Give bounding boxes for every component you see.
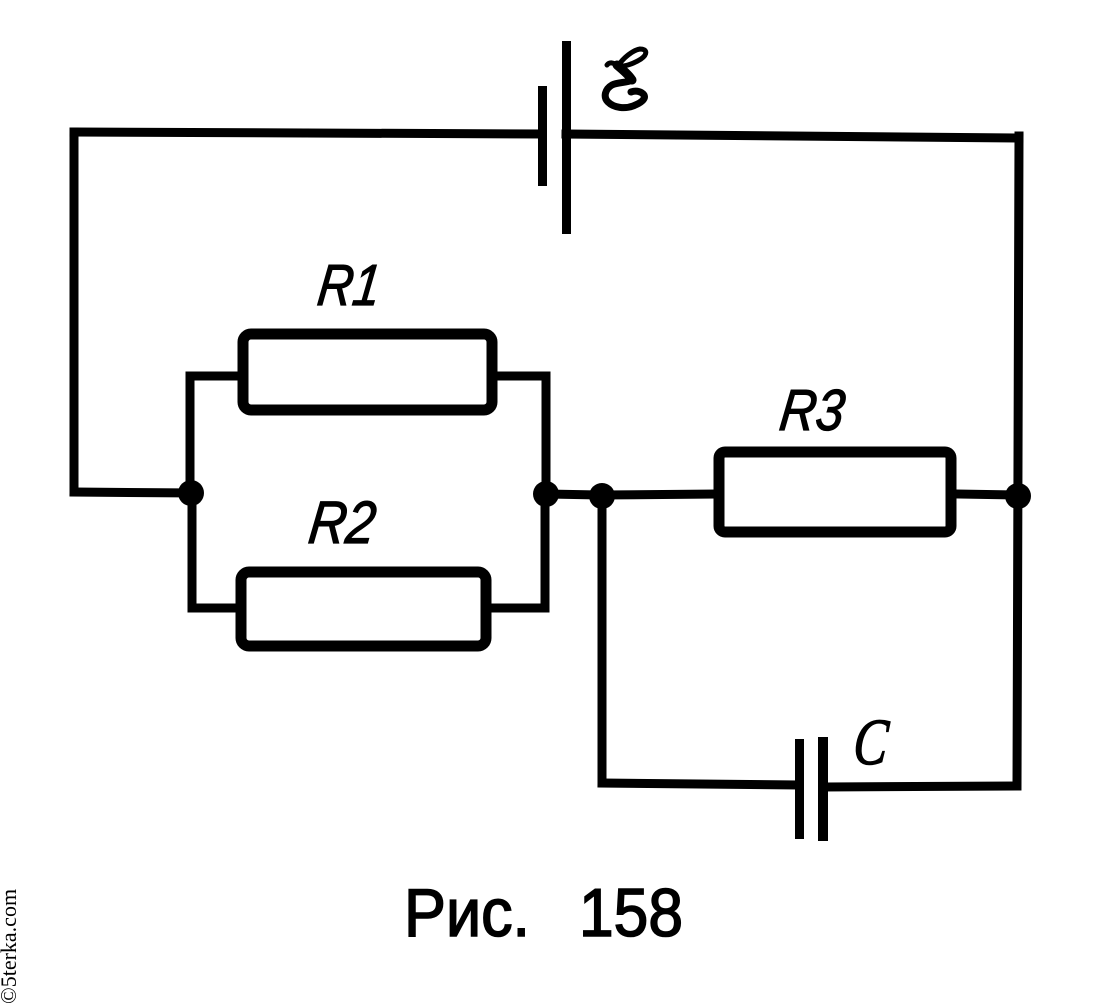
wire R2 right up to node B xyxy=(491,494,545,608)
node D junction dot xyxy=(1005,483,1031,509)
wire node A down to R2 xyxy=(192,495,236,608)
wire top-left segment xyxy=(74,132,542,134)
capacitor C left plate xyxy=(795,739,804,839)
resistor R3 xyxy=(719,452,951,532)
resistor R1 xyxy=(243,334,492,410)
wire bottom-left horizontal to node A xyxy=(74,492,193,493)
wire node B to node C xyxy=(546,494,602,495)
wire R1 right to node B xyxy=(497,376,546,492)
label EMF script E xyxy=(605,49,646,108)
node B junction dot xyxy=(533,481,559,507)
wire left vertical xyxy=(70,132,79,492)
wire top-right segment xyxy=(566,134,1019,138)
wire bottom horizontal right of capacitor xyxy=(826,786,1016,787)
watermark 5terka.com xyxy=(0,889,22,1004)
node A junction dot xyxy=(178,480,204,506)
wire R3 to node D xyxy=(956,494,1018,495)
svg-text:158: 158 xyxy=(579,875,683,951)
wire node A up to R1 xyxy=(190,376,238,495)
wire node C to R3 xyxy=(602,494,714,495)
node C junction dot xyxy=(589,483,615,509)
capacitor C right plate xyxy=(818,737,828,841)
battery E short plate xyxy=(538,86,547,186)
wire capacitor branch left vertical xyxy=(598,497,607,781)
svg-text:R2: R2 xyxy=(305,488,379,556)
battery E long plate xyxy=(562,41,571,234)
wire bottom horizontal left of capacitor xyxy=(602,783,795,785)
svg-text:R3: R3 xyxy=(776,378,848,443)
resistor R2 xyxy=(241,572,486,646)
wire right vertical xyxy=(1017,136,1019,786)
svg-text:R1: R1 xyxy=(314,253,384,318)
svg-text:C: C xyxy=(851,706,892,779)
svg-text:Рис.: Рис. xyxy=(404,875,530,951)
